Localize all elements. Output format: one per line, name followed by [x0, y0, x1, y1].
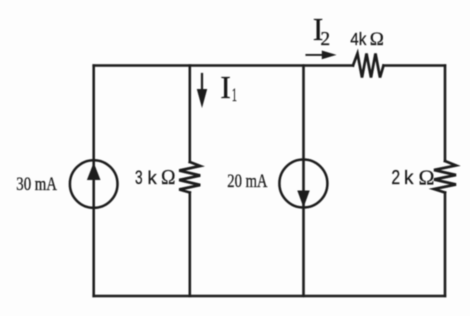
svg-text:20 mA: 20 mA: [227, 170, 268, 191]
svg-text:30 mA: 30 mA: [16, 173, 57, 194]
svg-text:4k: 4k: [350, 29, 367, 49]
label: 3 kOhm value: [135, 167, 143, 189]
svg-text:Ω: Ω: [161, 167, 176, 190]
svg-text:k: k: [148, 167, 158, 188]
resistor 3kOhm (vertical zigzag): [179, 162, 200, 193]
svg-text:I: I: [220, 69, 231, 105]
svg-text:2: 2: [391, 165, 400, 189]
wire: left branch (through 30mA source): [92, 66, 95, 297]
svg-text:2: 2: [320, 29, 330, 50]
wire: top wire left section (node A to node B): [94, 64, 353, 67]
wire: branch 3 (through 20mA source): [302, 66, 305, 297]
current source 30mA arrow (up): [87, 163, 101, 181]
label: 2 kOhm value: [391, 165, 400, 189]
wire: bottom wire: [94, 295, 445, 298]
svg-text:1: 1: [232, 85, 237, 106]
wire: right branch top segment: [444, 66, 447, 162]
label: 4 kOhm value: [350, 29, 367, 49]
svg-text:3: 3: [135, 167, 143, 189]
label: current I1: [220, 69, 231, 105]
svg-text:Ω: Ω: [370, 29, 384, 50]
resistor 2kOhm (vertical zigzag): [434, 161, 456, 193]
resistor 4kOhm (horizontal zigzag): [353, 54, 384, 78]
svg-text:k: k: [404, 168, 414, 189]
current source 20mA arrow (down): [297, 191, 309, 208]
wire: right branch bottom segment: [444, 193, 447, 297]
wire: branch 2 top segment: [189, 66, 192, 163]
label: 30 mA: [16, 173, 57, 194]
current arrow I2 (right): [306, 54, 323, 56]
current source I=20mA (circle): [279, 160, 327, 208]
label: 20 mA: [227, 170, 268, 191]
wire: top wire right section: [384, 64, 446, 67]
label: current I2: [313, 11, 324, 47]
wire: branch 2 bottom segment: [189, 193, 192, 297]
current arrow I1 (down): [201, 74, 203, 92]
svg-text:Ω: Ω: [419, 165, 435, 189]
current source I=30mA (circle): [70, 160, 118, 208]
